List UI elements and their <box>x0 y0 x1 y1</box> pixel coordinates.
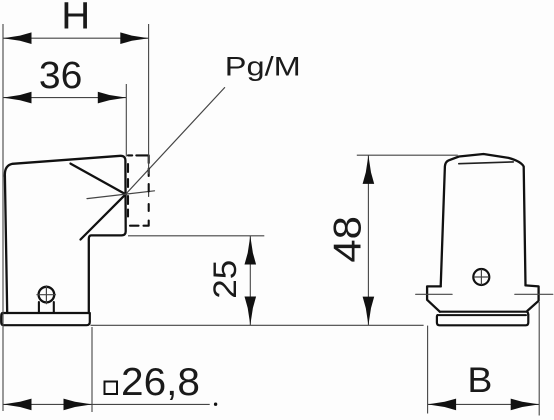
base middle line <box>438 314 526 316</box>
svg-text:25: 25 <box>207 260 243 299</box>
screw cross (front) <box>474 270 488 285</box>
dot at end of 26,8 line <box>214 403 217 406</box>
dome joint line <box>459 162 514 164</box>
arrow B right <box>511 399 540 411</box>
arrow 48 down <box>363 297 375 326</box>
screw head circle (front) <box>473 269 489 285</box>
extension line B-right (x=539.2) <box>538 302 540 416</box>
funnel diagonal upper <box>71 164 126 195</box>
hood body outline <box>5 156 126 313</box>
arrow B left <box>428 399 457 411</box>
extension line 48-top (y=155.2) <box>357 154 458 156</box>
hood front outline with dome top <box>441 154 526 286</box>
screw cross <box>37 286 56 304</box>
arrow 36 right <box>98 92 127 104</box>
lug center line left <box>416 293 452 295</box>
extension line 36-right (x=126.3) <box>125 84 127 157</box>
right lug <box>526 285 539 311</box>
extension line left (x=3) <box>2 24 4 411</box>
extension line H-right (x=148.6) <box>148 24 150 174</box>
funnel diagonal lower <box>81 194 126 239</box>
dimension line B <box>428 403 540 405</box>
extension line B-left (x=427.6) <box>427 326 429 414</box>
dimension line 25 <box>249 236 251 325</box>
arrow 48 up <box>363 155 375 184</box>
dimension line H <box>3 37 149 39</box>
arrow 36 left <box>3 92 32 104</box>
hidden outline left edge dashes <box>127 164 129 217</box>
arrow 25 up <box>245 236 257 265</box>
square symbol of 26,8 <box>105 382 118 395</box>
arrow H left <box>3 32 32 44</box>
hood left edge <box>5 176 7 313</box>
svg-text:48: 48 <box>326 216 369 263</box>
svg-text:Pg/M: Pg/M <box>225 52 301 82</box>
flange (bottom bar, side view) <box>1 313 90 325</box>
svg-text:26,8: 26,8 <box>121 361 200 404</box>
hidden outline bottom dash <box>130 225 139 227</box>
arrow 25 down <box>245 297 257 326</box>
svg-text:B: B <box>467 361 492 400</box>
extension line 25-top (y=235.8) <box>128 235 264 237</box>
screw head circle <box>39 287 55 303</box>
dimension line 48 <box>367 155 369 325</box>
screw shaft <box>39 302 54 313</box>
extension line 26,8-right (x=92) <box>91 327 93 412</box>
dimension line 26,8 with tail under text <box>3 403 210 405</box>
extension/projection line bottom (y=325.3) <box>91 324 424 326</box>
arrow H right <box>120 32 149 44</box>
hidden Pg entry dashed outline: top <box>128 155 149 163</box>
svg-text:H: H <box>61 0 90 38</box>
arrow 26,8 left <box>3 399 32 411</box>
center line tick <box>148 186 150 196</box>
hidden outline right edge dashes <box>144 169 149 226</box>
body bottom edge <box>440 312 528 315</box>
left lug <box>427 286 441 311</box>
entry center line <box>87 191 155 199</box>
lug center line right <box>515 293 553 295</box>
leader line to Pg/M <box>126 88 225 195</box>
arrow 26,8 right <box>64 399 93 411</box>
base bottom outline <box>437 315 528 326</box>
svg-text:36: 36 <box>39 55 83 97</box>
dimension line 36 <box>3 97 126 99</box>
